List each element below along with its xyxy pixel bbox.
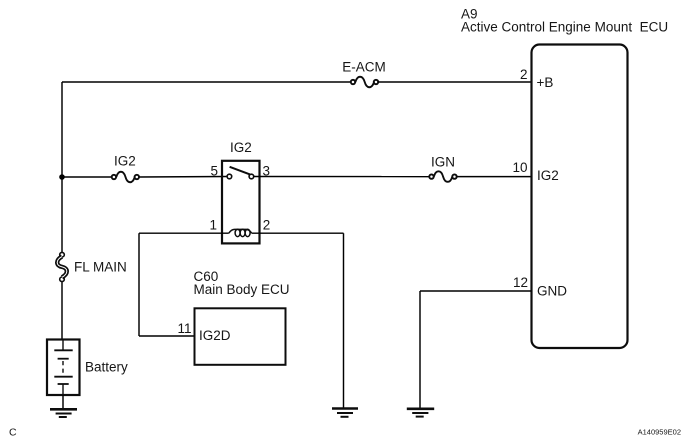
svg-text:1: 1: [209, 218, 217, 233]
ground (battery): [50, 409, 77, 417]
svg-text:5: 5: [210, 164, 218, 179]
wire E-ACM fuse to ECU pin 2: [378, 81, 531, 83]
svg-text:+B: +B: [537, 75, 554, 90]
svg-text:E-ACM: E-ACM: [342, 60, 386, 75]
svg-text:2: 2: [520, 67, 528, 82]
svg-text:IGN: IGN: [431, 155, 455, 170]
svg-text:Battery: Battery: [85, 360, 128, 375]
fusible link FL MAIN: [57, 252, 127, 281]
svg-text:C: C: [9, 427, 17, 439]
svg-text:FL MAIN: FL MAIN: [74, 260, 127, 275]
relay coil pins wire: pin 1: [139, 233, 229, 336]
battery: [47, 340, 128, 396]
svg-text:IG2: IG2: [230, 140, 252, 155]
relay switch contacts: [227, 174, 254, 179]
svg-text:12: 12: [513, 275, 528, 290]
wire IG2 fuse to relay pin 5: [139, 176, 227, 179]
fuse E-ACM: [342, 60, 386, 88]
svg-text:IG2: IG2: [537, 168, 559, 183]
svg-text:Active Control Engine Mount E: Active Control Engine Mount ECU: [461, 20, 668, 35]
wire IG2 branch to IG2 fuse: [62, 176, 112, 178]
ground (relay coil): [332, 409, 358, 417]
node junction at IG2 branch: [59, 174, 65, 180]
relay coil: [229, 229, 252, 236]
wire ECU pin 12 GND to ground: [420, 291, 532, 408]
svg-text:IG2: IG2: [114, 154, 136, 169]
ECU A9 Active Control Engine Mount ECU: [461, 7, 668, 349]
svg-text:IG2D: IG2D: [199, 328, 231, 343]
wire relay pin 3 to IGN fuse: [254, 176, 430, 178]
svg-text:11: 11: [177, 321, 191, 336]
svg-text:10: 10: [512, 160, 527, 175]
relay IG2 box: [222, 140, 260, 243]
ECU C60 Main Body ECU: [194, 269, 290, 365]
wire IGN fuse to ECU pin 10: [457, 176, 532, 178]
ground (ECU): [407, 409, 434, 417]
wire battery to ground: [62, 395, 64, 409]
svg-text:A140959E02: A140959E02: [638, 428, 681, 437]
wire top +B feed from battery node to E-ACM fuse: [62, 81, 351, 83]
svg-text:Main Body ECU: Main Body ECU: [194, 282, 290, 297]
svg-text:2: 2: [263, 218, 271, 233]
relay switch blade: [230, 167, 250, 175]
svg-text:GND: GND: [537, 284, 567, 299]
fuse IGN: [429, 155, 456, 182]
fuse IG2: [112, 154, 139, 183]
wire left vertical bus (battery feed): [61, 82, 63, 340]
wire relay pin 2 to ground: [252, 233, 344, 408]
